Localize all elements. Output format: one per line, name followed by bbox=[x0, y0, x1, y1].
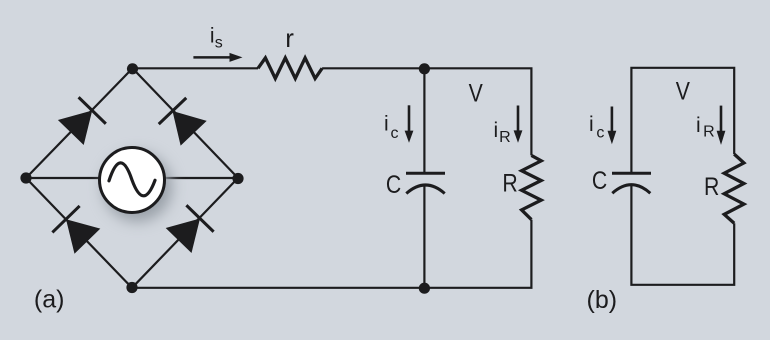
ac source sine symbol bbox=[109, 163, 155, 196]
wire: capacitor C branch upper segment bbox=[423, 68, 425, 173]
label i_c (circuit b) bbox=[589, 113, 604, 141]
wire: middle rail left node to right node bbox=[26, 177, 238, 179]
diode D2 top-right bbox=[159, 98, 208, 146]
label R (circuit b) bbox=[704, 172, 719, 200]
svg-text:R: R bbox=[502, 169, 517, 197]
node: bridge left bbox=[20, 172, 31, 183]
label R (circuit a) bbox=[502, 169, 517, 197]
resistor R (circuit b) zigzag bbox=[724, 154, 744, 223]
current arrow i_s bbox=[193, 53, 242, 62]
svg-text:(b): (b) bbox=[587, 286, 618, 314]
svg-text:s: s bbox=[215, 35, 223, 52]
current arrow i_c (circuit b) bbox=[608, 107, 617, 145]
wire: bridge diamond edges bbox=[26, 68, 238, 287]
svg-text:i: i bbox=[493, 119, 498, 142]
label i_R (circuit b) bbox=[696, 114, 715, 141]
label V (circuit a) bbox=[469, 79, 484, 107]
svg-text:R: R bbox=[703, 124, 715, 141]
svg-text:R: R bbox=[704, 172, 719, 200]
diode D3 bottom-left bbox=[52, 206, 101, 255]
label C (circuit a) bbox=[386, 170, 401, 198]
capacitor C (circuit a) top plate bbox=[406, 172, 445, 175]
current arrow i_c (circuit a) bbox=[405, 105, 414, 143]
wire: top rail from bridge top node to resistor r bbox=[133, 67, 259, 69]
node: bottom junction of C branch bbox=[419, 283, 430, 294]
diode D4 bottom-right bbox=[165, 205, 214, 254]
svg-text:i: i bbox=[589, 113, 594, 136]
wire: capacitor C branch lower segment bbox=[423, 185, 425, 288]
wire: circuit b bottom rail and lower side segments bbox=[631, 185, 734, 285]
label C (circuit b) bbox=[592, 166, 607, 194]
capacitor C (circuit a) curved plate bbox=[406, 185, 444, 194]
node: bridge right bbox=[232, 173, 243, 184]
ac source shadow bbox=[103, 153, 172, 222]
capacitor C (circuit b) curved plate bbox=[612, 185, 650, 194]
node: top junction of C branch bbox=[419, 63, 430, 74]
current arrow i_R (circuit b) bbox=[717, 106, 726, 145]
svg-text:c: c bbox=[391, 125, 399, 142]
diode D1 top-left bbox=[57, 97, 106, 146]
node: bridge bottom bbox=[126, 282, 137, 293]
svg-text:(a): (a) bbox=[34, 286, 65, 314]
current arrow i_R (circuit a) bbox=[514, 106, 523, 143]
svg-text:c: c bbox=[596, 124, 604, 141]
wire: bottom rail from bridge bottom node to R branch corner bbox=[132, 220, 531, 288]
label V (circuit b) bbox=[676, 77, 691, 105]
label i_R (circuit a) bbox=[493, 119, 510, 146]
svg-text:C: C bbox=[386, 170, 401, 198]
node: bridge top bbox=[127, 63, 138, 74]
svg-text:r: r bbox=[285, 23, 294, 53]
label i_c (circuit a) bbox=[384, 112, 399, 142]
svg-text:V: V bbox=[469, 79, 484, 107]
svg-text:V: V bbox=[676, 77, 691, 105]
svg-text:i: i bbox=[384, 112, 389, 135]
resistor r zigzag bbox=[258, 58, 322, 79]
svg-text:R: R bbox=[499, 129, 511, 146]
svg-text:C: C bbox=[592, 166, 607, 194]
resistor R (circuit a) zigzag bbox=[522, 155, 542, 219]
label i_s bbox=[210, 25, 223, 52]
capacitor C (circuit b) top plate bbox=[612, 172, 651, 175]
wire: top rail from resistor r to R branch corner bbox=[322, 68, 531, 155]
svg-text:i: i bbox=[696, 114, 701, 137]
ac source V1 circle bbox=[100, 148, 165, 213]
wire: circuit b top rail and upper side segments bbox=[631, 68, 734, 173]
